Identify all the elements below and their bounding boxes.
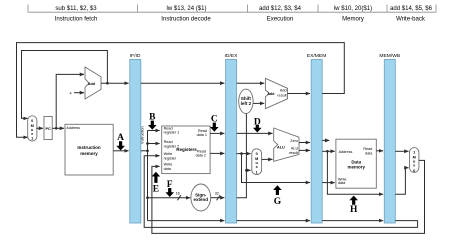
svg-text:4: 4 — [70, 92, 72, 96]
svg-text:EX/MEM: EX/MEM — [307, 53, 326, 59]
svg-text:0: 0 — [256, 152, 258, 156]
node ALU result junction — [326, 150, 329, 153]
wire PC+4 ID/EX to Add — [237, 82, 265, 84]
svg-text:G: G — [274, 197, 282, 207]
wire read data to MEM/WB — [376, 150, 383, 152]
svg-text:Instruction decode: Instruction decode — [161, 17, 211, 23]
wire ALU result bypass to MEM/WB — [327, 151, 383, 194]
node E — [152, 172, 161, 195]
svg-text:ALU: ALU — [277, 145, 285, 149]
svg-text:Instruction: Instruction — [77, 145, 101, 150]
wire instruction memory to IF/ID — [113, 150, 128, 152]
shift left 2 — [239, 89, 253, 113]
wire WB mux output to write data — [152, 160, 425, 233]
wire reg num EX/MEM to MEM/WB — [322, 220, 383, 222]
wire Add result to EX/MEM — [288, 93, 311, 95]
wire register number to ID/EX — [148, 220, 225, 222]
wire immediate to mux 1 — [246, 169, 250, 171]
wire ALU result to EX/MEM — [299, 149, 310, 151]
wire read data 1 to ALU — [237, 132, 273, 134]
wire reg num ID/EX to EX/MEM — [237, 220, 310, 222]
wire mux to ALU — [262, 158, 273, 160]
pipeline register ID/EX — [226, 60, 237, 224]
node A — [116, 133, 125, 151]
svg-text:Read: Read — [363, 147, 372, 151]
header bracket — [28, 5, 436, 13]
pipeline register EX/MEM — [311, 60, 322, 224]
svg-text:Address: Address — [339, 150, 353, 154]
wire register number return to write register — [144, 156, 417, 228]
node D — [253, 117, 262, 132]
wire read data 1 to ID/EX — [210, 132, 224, 134]
wire PC to instruction memory — [52, 127, 64, 129]
svg-text:Write-back: Write-back — [396, 17, 426, 23]
svg-text:data: data — [365, 152, 373, 156]
svg-text:Zero: Zero — [290, 139, 298, 143]
node H — [349, 196, 358, 215]
svg-text:sub $11, $2, $3: sub $11, $2, $3 — [55, 6, 97, 12]
svg-text:memory: memory — [347, 164, 365, 169]
wire sign extend to ID/EX — [211, 197, 225, 199]
svg-text:H: H — [350, 205, 358, 215]
node PC junction — [55, 127, 58, 130]
svg-text:16: 16 — [176, 192, 180, 196]
registers file — [162, 126, 210, 174]
wire mux to PC — [36, 127, 43, 129]
pipeline register IF/ID — [130, 60, 141, 224]
svg-text:0: 0 — [31, 119, 33, 123]
instruction memory — [65, 124, 113, 175]
wire zero stub — [322, 139, 329, 141]
svg-text:Registers: Registers — [176, 147, 197, 152]
svg-text:0: 0 — [413, 169, 415, 173]
svg-text:lw $13, 24 ($1): lw $13, 24 ($1) — [167, 6, 207, 12]
svg-text:Add: Add — [267, 92, 275, 96]
wire PC up to Add — [56, 74, 84, 128]
wire to read register 2 — [148, 143, 160, 145]
node F — [165, 180, 174, 197]
node G — [273, 185, 282, 207]
node immediate junction — [245, 169, 248, 172]
wire Add output to IF/ID — [101, 82, 129, 84]
svg-text:ALU: ALU — [291, 146, 299, 150]
svg-text:Add: Add — [280, 89, 287, 93]
svg-text:1: 1 — [31, 137, 33, 141]
node Add output junction — [106, 82, 109, 85]
svg-text:PC: PC — [45, 127, 51, 131]
wire ALU result to WB mux — [395, 168, 408, 195]
wire to sign extend — [148, 197, 191, 199]
svg-text:Instruction: Instruction — [141, 126, 145, 143]
svg-text:Instruction fetch: Instruction fetch — [55, 17, 98, 23]
wire write data to data memory — [322, 182, 335, 184]
data memory — [336, 139, 376, 188]
svg-text:register: register — [164, 156, 177, 160]
wire write data down and to EX/MEM — [242, 154, 311, 183]
wire read data 2 to ID/EX — [210, 152, 224, 154]
mux PC source — [28, 116, 37, 141]
adder branch — [265, 78, 287, 108]
node read data 2 junction — [240, 152, 243, 155]
wire read data 2 to mux — [237, 153, 251, 155]
svg-text:Address: Address — [66, 126, 80, 130]
pipeline register labels — [130, 53, 401, 59]
svg-text:add $12, $3, $4: add $12, $3, $4 — [259, 6, 302, 12]
slash 32 — [217, 195, 221, 200]
wire shift to Add — [253, 102, 264, 104]
svg-text:lw $10, 20($1): lw $10, 20($1) — [334, 6, 372, 12]
register PC — [44, 117, 52, 140]
wire read data to WB mux — [395, 150, 408, 152]
svg-text:Memory: Memory — [342, 17, 365, 23]
wire PC+4 feedback to PC mux — [22, 51, 108, 119]
adder PC+4 — [85, 67, 101, 99]
wire 4 to Add — [74, 92, 84, 94]
svg-text:Add: Add — [88, 82, 96, 86]
svg-text:1: 1 — [256, 170, 258, 174]
svg-text:ID/EX: ID/EX — [225, 53, 239, 59]
svg-text:result: result — [289, 151, 299, 155]
svg-text:add $14, $5, $6: add $14, $5, $6 — [390, 6, 433, 12]
wire immediate from ID/EX up — [237, 113, 247, 197]
svg-text:data: data — [338, 181, 346, 185]
svg-text:result: result — [277, 93, 287, 97]
node instr junctions — [146, 142, 149, 145]
wire instruction bus from IF/ID — [141, 150, 148, 152]
wire zero to EX/MEM — [299, 142, 310, 144]
alu — [274, 128, 299, 161]
svg-text:left 2: left 2 — [241, 101, 252, 106]
svg-text:1: 1 — [413, 151, 415, 155]
svg-text:Execution: Execution — [267, 17, 294, 23]
wire branch feedback EX/MEM to PC mux — [17, 43, 345, 138]
wire to read register 1 — [148, 130, 160, 132]
svg-text:E: E — [153, 185, 159, 195]
wire PC+4 IF/ID to ID/EX — [141, 82, 225, 84]
slash 16 — [177, 195, 181, 200]
mux ALUSrc — [252, 149, 262, 175]
svg-text:data 1: data 1 — [197, 133, 207, 137]
svg-text:extend: extend — [194, 197, 209, 202]
pipeline register MEM/WB — [384, 60, 395, 224]
wire ALU result to address — [322, 150, 335, 152]
header instruction texts — [55, 6, 433, 23]
svg-text:data 2: data 2 — [196, 154, 206, 158]
mux write back — [410, 148, 419, 173]
node B — [148, 113, 157, 130]
svg-text:MEM/WB: MEM/WB — [379, 53, 401, 59]
svg-text:IF/ID: IF/ID — [130, 53, 141, 59]
node C — [210, 115, 219, 132]
sign extend — [191, 184, 211, 211]
svg-text:32: 32 — [215, 192, 219, 196]
svg-text:data: data — [164, 167, 172, 171]
svg-text:register 1: register 1 — [164, 131, 180, 135]
wire instruction vertical bus — [147, 131, 149, 221]
svg-text:memory: memory — [80, 151, 98, 156]
